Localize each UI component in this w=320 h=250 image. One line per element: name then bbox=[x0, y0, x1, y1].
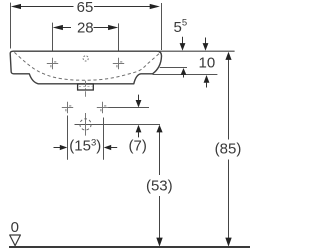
dimension 65 line bbox=[21, 6, 151, 8]
dimension 85 arrow bottom bbox=[225, 238, 231, 247]
trap body rectangle bbox=[78, 84, 94, 90]
dimension 28 line bbox=[63, 27, 109, 29]
washbasin outline bbox=[10, 51, 161, 84]
rim bottom reference line bbox=[160, 67, 187, 69]
tap hole cross right bbox=[113, 58, 124, 69]
dimension 10 arrow bottom bbox=[204, 75, 210, 88]
floor line bbox=[9, 246, 250, 248]
dimension 10 arrow top bbox=[203, 38, 209, 51]
dimension 7 arrow top bbox=[136, 95, 142, 108]
top surface reference line bbox=[158, 50, 235, 52]
tap hole cross left bbox=[47, 58, 58, 69]
dimension 7 arrow bottom bbox=[136, 125, 142, 138]
svg-text:0: 0 bbox=[11, 219, 19, 236]
dimension 15.3 arrow left bbox=[54, 145, 68, 150]
dimension 15.3 extension line right bbox=[103, 118, 105, 160]
dimension 5.5 arrow top bbox=[180, 37, 186, 51]
drain centerline horizontal bbox=[75, 124, 161, 126]
dimension 5.5 arrow bottom bbox=[181, 68, 187, 78]
drain centerline vertical bbox=[85, 113, 87, 136]
dimension 28 arrow right bbox=[108, 25, 118, 30]
dimension 28 extension line right bbox=[118, 23, 120, 58]
overflow hole (dashed circle) bbox=[83, 56, 88, 61]
trap hidden line (dashed) bbox=[79, 86, 92, 88]
dimension 85 line bbox=[228, 60, 230, 240]
dimension 53 arrow top bbox=[156, 125, 162, 133]
dimension 28 arrow left bbox=[53, 25, 63, 30]
svg-text:10: 10 bbox=[199, 54, 216, 71]
svg-text:(153): (153) bbox=[69, 138, 101, 155]
mounting hole cross right bbox=[97, 102, 108, 113]
svg-text:28: 28 bbox=[77, 19, 94, 36]
dimension 65 extension line right bbox=[161, 3, 163, 50]
svg-text:(7): (7) bbox=[129, 138, 147, 155]
floor level triangle marker bbox=[10, 235, 21, 246]
mounting hole cross left bbox=[62, 102, 73, 113]
mounting hole reference line bbox=[108, 107, 149, 109]
dimension 15.3 extension line left bbox=[67, 116, 69, 160]
dimension 53 line bbox=[159, 132, 161, 240]
drain hole (dashed circle) bbox=[80, 119, 91, 130]
dimension 28 extension line left bbox=[52, 23, 54, 59]
apron bottom reference line bbox=[153, 74, 218, 76]
svg-text:(85): (85) bbox=[215, 141, 242, 158]
dimension 15.3 arrow right bbox=[104, 145, 118, 150]
dimension 65 extension line left bbox=[10, 3, 12, 49]
svg-text:(53): (53) bbox=[146, 177, 173, 194]
dimension 65 arrow left bbox=[11, 4, 21, 9]
svg-text:65: 65 bbox=[77, 0, 94, 16]
dimension 65 arrow right bbox=[150, 4, 160, 9]
dimension 53 arrow bottom bbox=[156, 238, 162, 247]
trap centerline bbox=[85, 81, 87, 97]
basin inner bowl hidden edge (dashed) bbox=[14, 52, 159, 80]
dimension 85 arrow top bbox=[225, 52, 231, 60]
